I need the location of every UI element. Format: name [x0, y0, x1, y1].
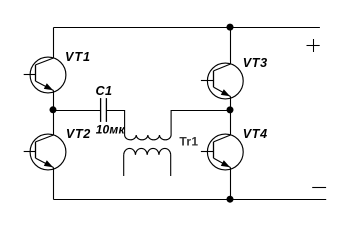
node A junction dot: [50, 106, 57, 113]
svg-text:VT3: VT3: [243, 56, 268, 70]
wire: node A to VT2 collector: [53, 111, 55, 136]
wire: VT3 collector to top rail: [230, 28, 232, 65]
svg-text:Tr1: Tr1: [179, 134, 198, 148]
wire: node B to VT4 collector: [230, 111, 232, 136]
terminal minus: [312, 187, 326, 189]
transistor VT4: [201, 134, 243, 170]
transistor VT2: [24, 134, 66, 170]
wire: top supply rail: [54, 27, 320, 29]
svg-text:VT2: VT2: [66, 127, 91, 141]
wire: secondary right lead: [170, 155, 172, 176]
wire: VT4 emitter to bottom rail: [230, 168, 232, 200]
wire: VT1 emitter to node A: [53, 91, 55, 111]
wire: secondary left lead: [123, 155, 125, 176]
svg-text:10мк: 10мк: [96, 122, 126, 136]
transistor VT1: [24, 57, 66, 93]
svg-text:VT1: VT1: [65, 50, 91, 64]
wire: VT3 emitter to node B: [230, 97, 232, 111]
wire: C1 to transformer primary: [107, 111, 125, 136]
wire: transformer primary to node B: [171, 111, 230, 136]
wire: VT2 emitter to bottom rail: [53, 168, 55, 200]
transformer Tr1 primary winding: [125, 135, 172, 140]
node: bottom rail junction dot: [227, 196, 234, 203]
svg-text:VT4: VT4: [243, 127, 268, 141]
wire: VT1 collector to top rail: [53, 28, 55, 59]
terminal plus: [307, 39, 320, 52]
svg-text:C1: C1: [96, 84, 113, 98]
transformer Tr1 secondary winding: [124, 148, 171, 154]
node: top rail junction dot: [227, 24, 234, 31]
transistor VT3: [201, 63, 243, 99]
capacitor C1: [101, 98, 107, 122]
wire: bottom supply rail: [54, 199, 327, 201]
wire: node A to capacitor C1: [54, 110, 101, 112]
node B junction dot: [227, 106, 234, 113]
